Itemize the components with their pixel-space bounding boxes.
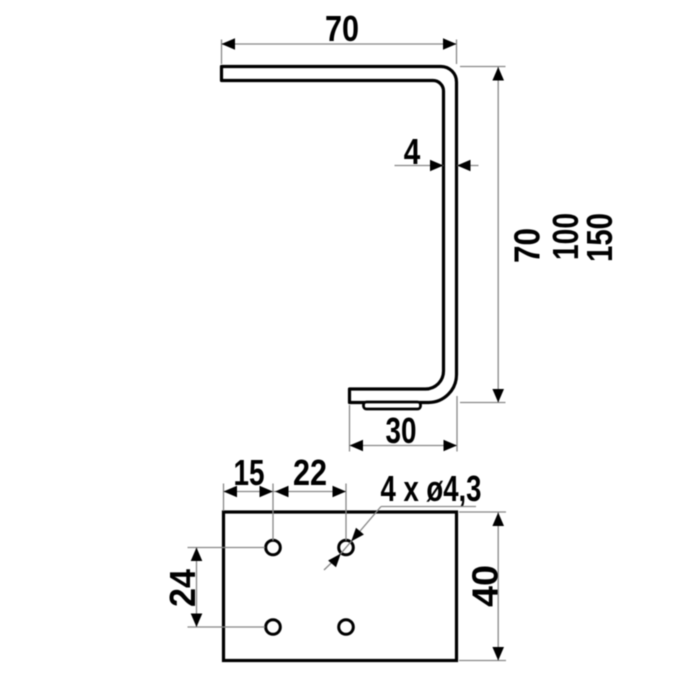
dim 4 arrow left xyxy=(430,160,444,172)
hole top-left xyxy=(266,540,281,555)
bracket profile outline (side view) xyxy=(222,67,457,403)
svg-text:30: 30 xyxy=(386,410,417,451)
dim 30 arrow right xyxy=(444,440,458,452)
dim 15/22 extension line middle xyxy=(272,484,274,541)
dim 22 arrow left xyxy=(275,486,289,498)
svg-text:22: 22 xyxy=(293,452,327,493)
dim 15/22 extension line left xyxy=(223,484,225,512)
hole leader underline xyxy=(381,506,476,508)
height dim extension line top xyxy=(460,66,506,68)
svg-text:15: 15 xyxy=(234,452,265,493)
dim 70 dimension line xyxy=(222,43,457,45)
dim 70 extension line right xyxy=(456,40,458,65)
dim 4 dimension line left segment xyxy=(395,165,444,167)
hole leader arrow upper xyxy=(351,528,364,542)
dim 4 arrow right xyxy=(457,160,471,172)
dim 4 dimension line right segment xyxy=(457,165,479,167)
hole leader diagonal across hole xyxy=(341,541,351,553)
hole leader diagonal upper segment xyxy=(351,507,381,542)
svg-text:70: 70 xyxy=(507,228,548,263)
svg-text:150: 150 xyxy=(579,213,620,262)
hole bottom-left xyxy=(266,620,281,635)
dim 40 dimension line xyxy=(497,513,499,661)
dim 70 extension line left xyxy=(221,40,223,65)
dim 40 extension line top xyxy=(459,511,506,513)
dim 24 arrow top xyxy=(191,548,203,562)
svg-text:40: 40 xyxy=(465,565,506,607)
svg-text:24: 24 xyxy=(162,569,203,607)
dim 24 extension line top xyxy=(188,547,266,549)
hole bottom-right xyxy=(339,620,354,635)
dim 24 dimension line xyxy=(196,548,198,628)
dim 24 arrow bottom xyxy=(191,614,203,628)
svg-text:70: 70 xyxy=(325,8,359,49)
svg-text:4: 4 xyxy=(404,131,421,172)
dim 15 arrow left xyxy=(224,486,238,498)
dim 24 extension line bottom xyxy=(188,626,266,628)
dim 15 arrow right xyxy=(260,486,274,498)
svg-text:4 x ø4,3: 4 x ø4,3 xyxy=(381,468,482,509)
dim 15/22 extension line right xyxy=(345,484,347,541)
foot pad under bottom flange xyxy=(364,402,421,409)
dim 30 extension line left xyxy=(349,405,351,452)
height dim arrow top xyxy=(492,67,504,81)
dim 30 extension line right xyxy=(456,396,458,452)
dim 30 dimension line xyxy=(350,445,458,447)
dim 22 arrow right xyxy=(333,486,347,498)
base plate (plan view) xyxy=(224,512,457,661)
dim 30 arrow left xyxy=(350,440,364,452)
height dim arrow bottom xyxy=(492,389,504,403)
hole top-right xyxy=(339,540,354,555)
dim 40 arrow top xyxy=(492,513,504,527)
hole leader diagonal tail xyxy=(324,554,341,570)
height dim dimension line xyxy=(497,67,499,403)
height dim extension line bottom xyxy=(460,402,506,404)
dim 40 extension line bottom xyxy=(459,660,506,662)
dim 15/22 dimension line xyxy=(224,491,347,493)
hole leader arrow lower xyxy=(328,554,341,568)
dim 40 arrow bottom xyxy=(492,647,504,661)
dim 70 arrow right xyxy=(443,38,457,50)
dim 70 arrow left xyxy=(222,38,236,50)
